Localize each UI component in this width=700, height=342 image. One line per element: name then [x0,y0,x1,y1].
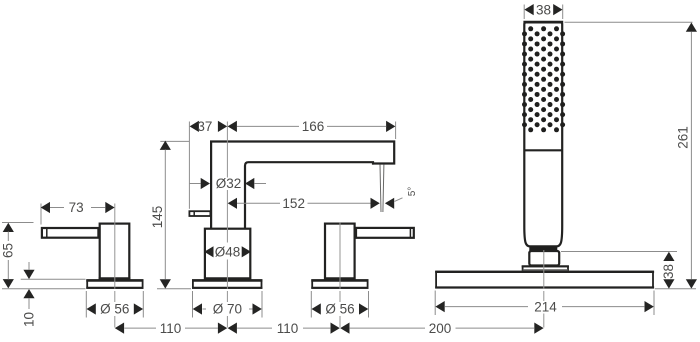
extension line wand top [565,21,693,23]
svg-text:152: 152 [282,196,305,211]
svg-text:10: 10 [21,312,36,327]
bottom dim 110 second [237,327,272,329]
dim diameter 56 left [85,291,87,318]
holder cone [529,251,559,266]
junction band [529,246,557,251]
bottom dim 110 first [115,323,124,334]
right handle lever [356,228,414,238]
dim 38 top [523,5,525,20]
svg-text:65: 65 [1,243,16,258]
svg-text:166: 166 [302,119,325,134]
dim 166 [395,122,397,140]
svg-text:Ø32: Ø32 [216,176,242,191]
right handle base plate [312,280,367,288]
spout lower column [205,229,250,281]
svg-text:Ø 70: Ø 70 [213,302,242,317]
bottom dim 200 [350,327,425,329]
left handle lever [42,228,99,238]
dim 38 right [561,251,677,253]
svg-text:110: 110 [160,321,182,336]
dim 145 [160,140,189,142]
dim 214 [434,291,436,316]
dim diameter 32 [189,183,200,185]
left handle centerline [114,204,116,289]
dim 261 [686,23,697,32]
plateau step [523,269,568,271]
spout tab [189,211,210,216]
dim diameter 48 [204,246,213,257]
svg-text:200: 200 [429,321,452,336]
svg-text:261: 261 [675,126,690,149]
svg-text:37: 37 [197,119,212,134]
svg-text:73: 73 [69,200,84,215]
junction arrows right handle center [331,323,340,334]
svg-text:145: 145 [150,206,165,229]
junction arrows spout center [218,323,227,334]
svg-text:Ø 56: Ø 56 [100,302,129,317]
svg-text:38: 38 [536,2,551,17]
spray face dots [522,26,565,132]
right handle centerline [339,223,341,289]
shower centerline [543,250,545,289]
right handle post [325,224,355,281]
spout base plate [193,280,262,288]
water stream lines [380,165,381,213]
dim 152 [228,198,237,209]
left handle post [100,224,130,281]
svg-text:110: 110 [277,321,299,336]
dim diameter 70 [192,291,194,318]
dim diameter 56 right [310,291,312,318]
shower wand [524,22,562,246]
spout centerline [226,122,228,178]
svg-text:214: 214 [534,299,557,314]
svg-text:Ø 56: Ø 56 [325,302,354,317]
dim 65 [2,222,34,224]
holder flange [523,266,568,270]
svg-text:Ø48: Ø48 [215,244,241,259]
svg-text:38: 38 [661,264,676,279]
svg-text:5°: 5° [407,187,418,197]
spout body (arm + column silhouette) [211,142,394,229]
dim 37 [188,122,190,209]
shower base plate [436,272,653,288]
left handle base plate [87,280,142,288]
dim 10 [21,278,86,280]
face separator line [524,149,562,151]
dim 73 [40,204,42,225]
leader 5 degrees [385,198,394,209]
